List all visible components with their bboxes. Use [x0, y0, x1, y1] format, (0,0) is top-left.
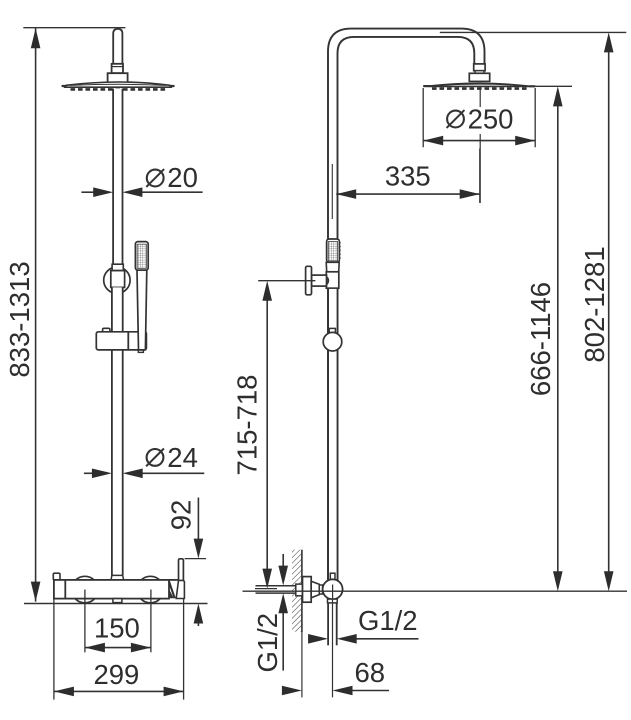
- svg-text:715-718: 715-718: [232, 375, 263, 476]
- top tube above head: [113, 29, 122, 64]
- svg-text:G1/2: G1/2: [252, 613, 283, 673]
- supply pipe in wall: [256, 586, 297, 593]
- wall hatching: [292, 550, 302, 632]
- pipe flare into mixer: [111, 575, 124, 580]
- knob stem dot: [327, 277, 328, 284]
- dimension 666-1146: [530, 86, 573, 591]
- head disc tick left: [423, 85, 430, 87]
- head cone base: [108, 73, 128, 83]
- drop pipe: [328, 603, 337, 645]
- mixer right diagonal cut: [169, 582, 175, 599]
- collar below sphere: [328, 599, 338, 603]
- head rim tick left: [62, 85, 67, 87]
- supply nipple: [296, 584, 303, 596]
- head rim tick right: [170, 85, 175, 87]
- head nozzle dashes (side): [432, 87, 529, 90]
- top reference line: [23, 27, 125, 29]
- hand shower wand (side): [327, 239, 340, 262]
- flange cone: [311, 581, 319, 598]
- bracket tab: [103, 328, 110, 332]
- pipe through ring: [113, 264, 122, 287]
- dimension 833-1313: [31, 28, 41, 601]
- slider block: [111, 271, 125, 288]
- top reference line right: [440, 31, 627, 33]
- wall reference line lower: [301, 632, 303, 697]
- dimension G1/2 pipe: [308, 634, 418, 644]
- connector nut: [319, 585, 322, 594]
- gooseneck pipe outer contour: [328, 29, 485, 580]
- diverter knob arm: [312, 275, 327, 286]
- valve body circle right: [137, 576, 164, 603]
- ball joint sphere: [323, 579, 343, 599]
- slider cap: [112, 264, 123, 270]
- tube collar: [112, 64, 123, 73]
- wall flange: [303, 577, 312, 603]
- dimension 68: [282, 686, 389, 696]
- mixer left tab: [53, 573, 60, 580]
- 335 extension line: [479, 149, 481, 204]
- slider ring (side): [323, 328, 342, 351]
- wand outlet stub: [138, 350, 143, 353]
- label Ø250: [447, 104, 514, 135]
- head centre line: [479, 87, 481, 204]
- svg-text:68: 68: [355, 657, 386, 688]
- svg-text:802-1281: 802-1281: [579, 246, 610, 362]
- wand collar (side): [326, 262, 339, 272]
- upper riser pipe: [113, 89, 122, 265]
- mixer under-spout notch: [113, 599, 122, 603]
- shower head disc (front): [65, 82, 171, 87]
- dimension 299 extension lines: [54, 599, 184, 700]
- wand handle: [137, 270, 147, 350]
- mixer body: [54, 580, 179, 599]
- dimension Ø250: [423, 88, 535, 147]
- dimension 715-718: [255, 281, 315, 589]
- pipe seam line: [331, 164, 333, 219]
- riser pipe (side) below diverter: [326, 288, 339, 580]
- dimension 299 arrows: [54, 687, 184, 697]
- wall line: [301, 550, 303, 632]
- shower head disc (side): [430, 83, 529, 86]
- gooseneck pipe inner contour: [338, 37, 475, 580]
- diverter body: [326, 272, 339, 288]
- sphere vertical centre mark: [332, 585, 334, 599]
- lower riser pipe upper part: [112, 287, 123, 331]
- valve body circle left: [72, 576, 99, 603]
- drop pipe centre line: [332, 599, 334, 697]
- head disc tick right: [530, 85, 536, 87]
- dimension 150 arrows: [85, 643, 151, 653]
- svg-text:150: 150: [94, 612, 140, 643]
- dimension Ø24: [84, 469, 204, 479]
- svg-text:24: 24: [167, 442, 198, 473]
- dimension Ø20: [81, 187, 202, 197]
- dimension 335: [336, 189, 480, 199]
- hand shower wand head: [135, 242, 148, 271]
- label Ø20: [146, 162, 198, 193]
- svg-text:299: 299: [93, 659, 139, 690]
- svg-text:833-1313: 833-1313: [4, 261, 35, 377]
- svg-text:20: 20: [167, 162, 198, 193]
- svg-text:335: 335: [385, 161, 431, 192]
- label Ø24: [146, 442, 198, 473]
- head stem collar (side): [469, 64, 489, 82]
- svg-text:G1/2: G1/2: [358, 605, 418, 636]
- dimension 802-1281: [604, 32, 614, 591]
- hand shower holder ring: [104, 267, 130, 293]
- dimension 150 extension lines: [85, 590, 151, 653]
- lower riser pipe below bracket: [112, 350, 123, 576]
- head nozzle dashes: [71, 88, 166, 91]
- mixer baseline: [24, 603, 208, 605]
- svg-text:666-1146: 666-1146: [525, 282, 556, 396]
- mixer axis line: [243, 590, 628, 592]
- diverter knob bar: [306, 266, 312, 295]
- dimension G1/2 wall vertical: [278, 554, 288, 671]
- dimension 92: [185, 498, 206, 627]
- mixer lever: [176, 559, 184, 599]
- svg-text:92: 92: [166, 500, 197, 531]
- adjuster stub: [330, 573, 335, 579]
- wall bracket: [96, 332, 146, 350]
- svg-text:250: 250: [468, 104, 514, 135]
